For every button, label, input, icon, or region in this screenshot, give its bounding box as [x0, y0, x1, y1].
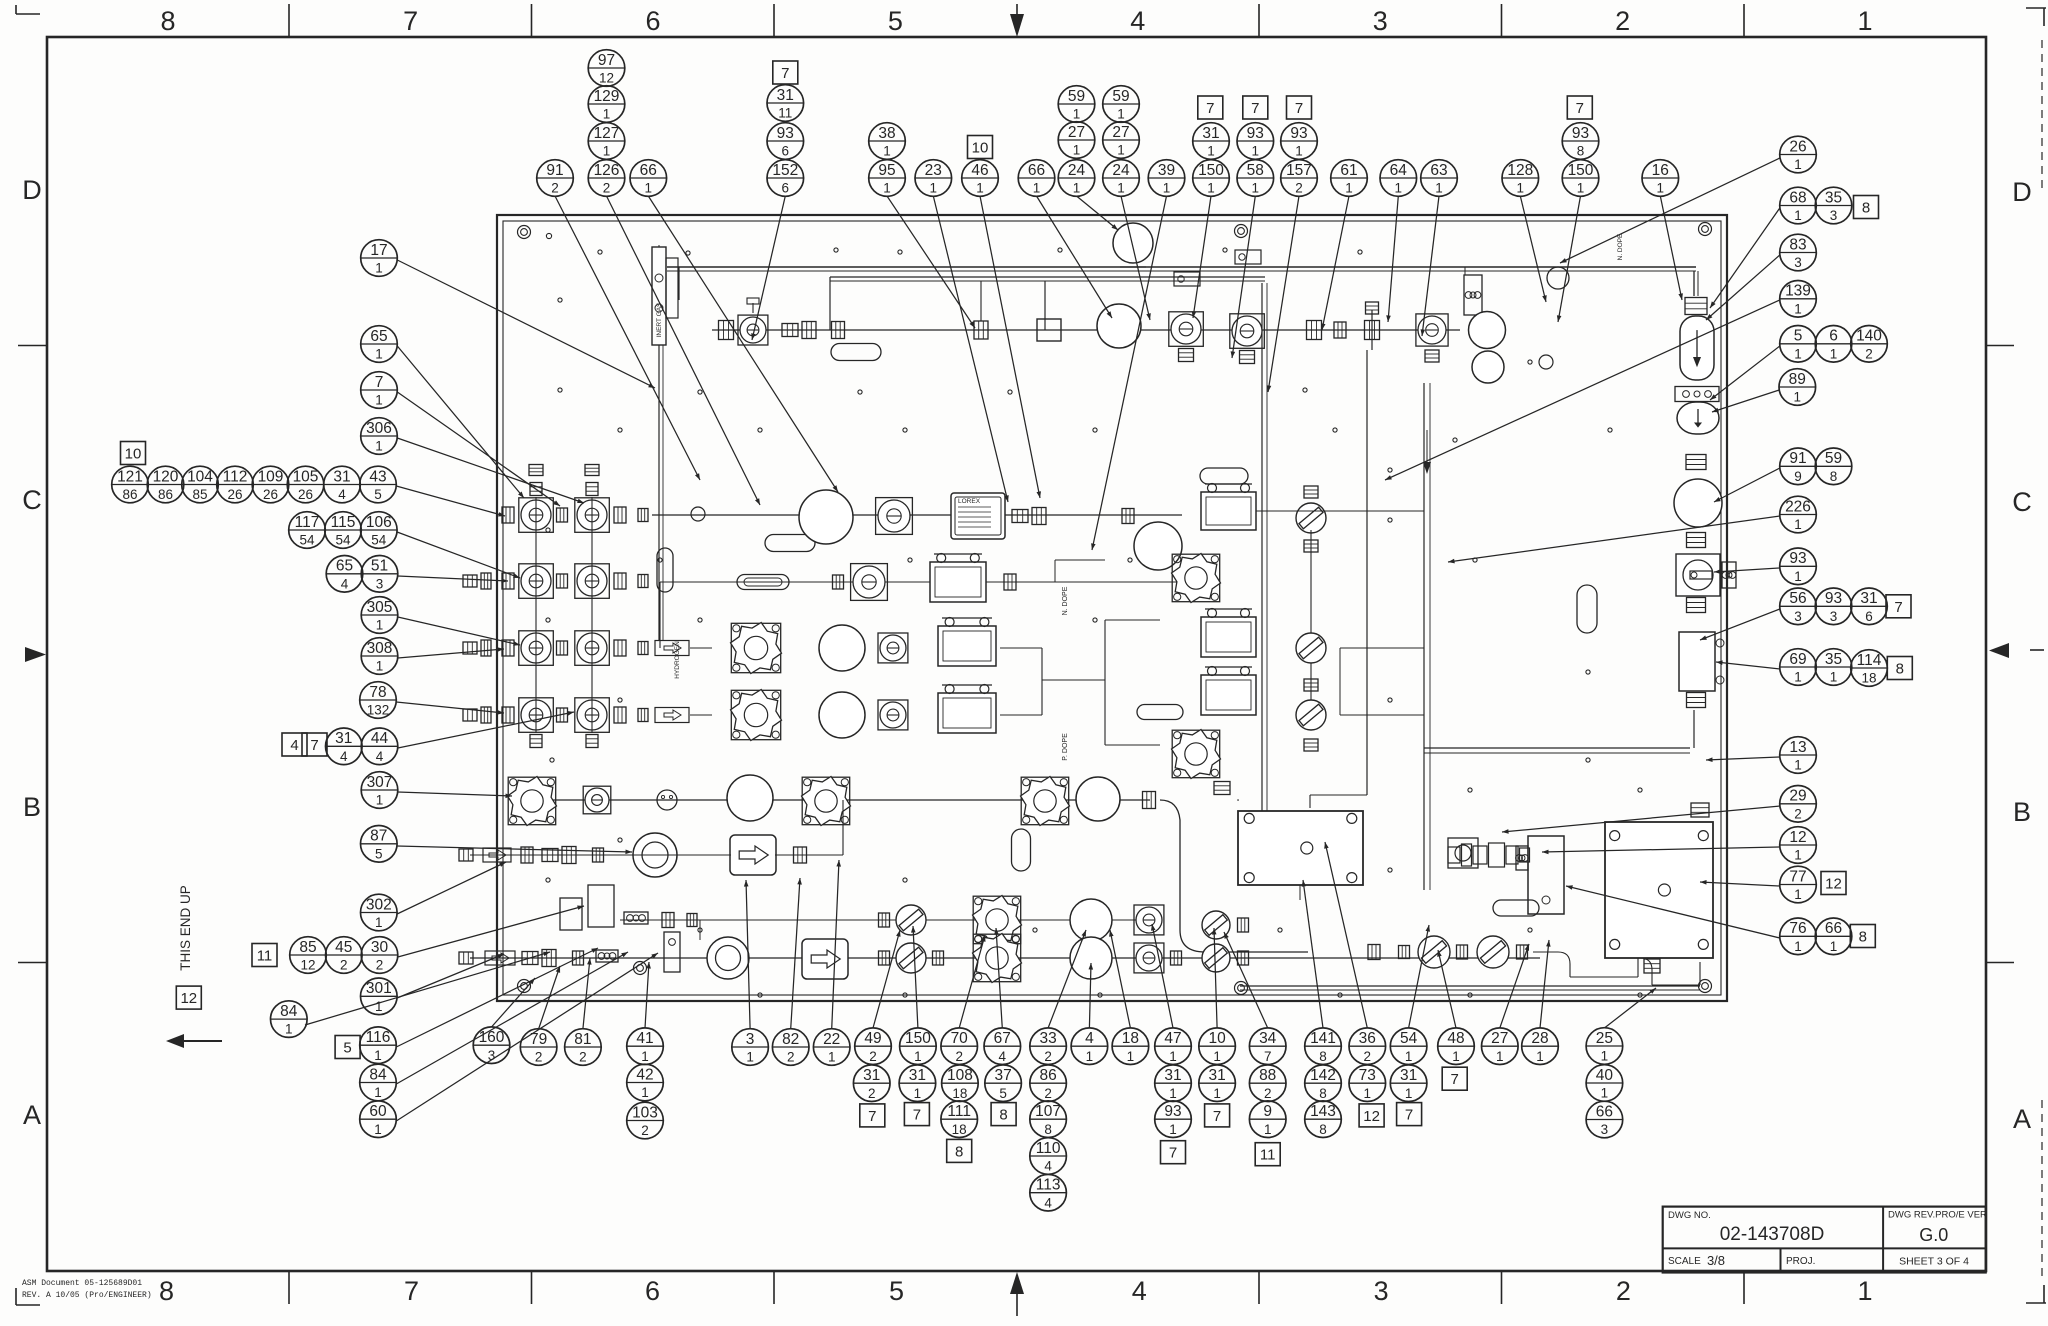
balloon callout 4/1 [1071, 1028, 1108, 1065]
balloon callout 157/2 [1281, 160, 1318, 197]
svg-text:18: 18 [1861, 671, 1876, 686]
line label P DOPE [1062, 733, 1069, 761]
svg-text:44: 44 [371, 730, 389, 747]
svg-text:54: 54 [1400, 1030, 1418, 1047]
valve row8 b [1134, 905, 1164, 935]
leader line 57 [492, 978, 536, 1027]
svg-text:36: 36 [1359, 1030, 1376, 1047]
balloon callout 31/1 [1155, 1065, 1192, 1102]
svg-text:1: 1 [1794, 157, 1802, 172]
balloon callout 65/4 [326, 556, 363, 593]
balloon callout 48/1 [1438, 1028, 1475, 1065]
svg-text:108: 108 [947, 1067, 973, 1084]
svg-text:2: 2 [1865, 346, 1873, 361]
balloon callout 112/26 [217, 466, 254, 503]
svg-text:7: 7 [403, 6, 418, 36]
dope riser lines [1042, 620, 1160, 745]
svg-text:DWG NO.: DWG NO. [1668, 1210, 1711, 1221]
balloon callout 84/1 [271, 1001, 308, 1038]
svg-text:33: 33 [1039, 1030, 1056, 1047]
balloon callout 150/1 [1562, 160, 1599, 197]
leader line 39 [397, 392, 560, 506]
svg-text:5: 5 [374, 487, 382, 502]
fitting row6 [1143, 792, 1156, 809]
svg-text:91: 91 [1789, 450, 1806, 467]
svg-text:58: 58 [1247, 162, 1264, 179]
svg-text:1: 1 [1794, 517, 1802, 532]
balloon callout 7/1 [361, 372, 398, 409]
balloon callout 59/1 [1058, 86, 1095, 123]
sheet edge line right [2041, 40, 2043, 1280]
svg-text:40: 40 [1596, 1067, 1614, 1084]
knob K1 [1172, 554, 1221, 603]
svg-text:141: 141 [1310, 1030, 1336, 1047]
svg-text:7: 7 [913, 1107, 921, 1124]
svg-text:109: 109 [258, 468, 284, 485]
svg-text:1: 1 [1794, 208, 1802, 223]
svg-text:HYDROGEN: HYDROGEN [674, 641, 681, 679]
svg-text:2: 2 [340, 958, 348, 973]
svg-text:1: 1 [914, 1086, 922, 1101]
leader line 78 [1500, 944, 1529, 1028]
boxed find number 7 [1243, 96, 1268, 119]
balloon callout 28/1 [1522, 1028, 1559, 1065]
leader line 10 [1121, 196, 1151, 320]
ring valve row9 [707, 937, 749, 979]
balloon callout 115/54 [325, 512, 362, 549]
fitting RC5 [1687, 693, 1706, 708]
balloon callout 70/2 [941, 1028, 978, 1065]
valve row8 a [879, 905, 927, 935]
svg-text:1: 1 [1405, 1086, 1413, 1101]
svg-text:3: 3 [1794, 609, 1802, 624]
svg-text:23: 23 [925, 162, 942, 179]
svg-text:02-143708D: 02-143708D [1720, 1224, 1825, 1245]
svg-text:C: C [2012, 487, 2032, 517]
svg-text:82: 82 [782, 1031, 799, 1048]
leader line 11 [1091, 196, 1166, 550]
balloon callout 65/1 [361, 326, 398, 363]
balloon callout 64/1 [1380, 160, 1417, 197]
balloon callout 143/8 [1305, 1101, 1342, 1138]
balloon callout 27/1 [1058, 122, 1095, 159]
balloon callout 42/1 [627, 1064, 664, 1101]
svg-text:93: 93 [1825, 590, 1842, 607]
svg-text:1: 1 [1794, 569, 1802, 584]
svg-text:1: 1 [1794, 887, 1802, 902]
panel slot cutouts [657, 344, 1597, 917]
svg-text:1: 1 [1830, 670, 1838, 685]
leader line 21 [1560, 158, 1780, 263]
tube row2 [652, 514, 1182, 516]
svg-text:N. DOPE: N. DOPE [1062, 586, 1069, 615]
svg-text:3/8: 3/8 [1707, 1253, 1725, 1268]
balloon callout 142/8 [1305, 1065, 1342, 1102]
manifold inlet stubs row2-4 [463, 573, 491, 723]
valve row2 right [1296, 486, 1326, 552]
svg-text:54: 54 [335, 533, 351, 548]
svg-text:31: 31 [335, 730, 352, 747]
balloon callout 95/1 [869, 160, 906, 197]
svg-text:1: 1 [1657, 181, 1665, 196]
balloon callout 114/18 [1851, 650, 1888, 687]
svg-text:1: 1 [1252, 181, 1260, 196]
leader line 77 [1437, 950, 1456, 1028]
svg-text:7: 7 [375, 374, 384, 391]
svg-text:24: 24 [1112, 162, 1130, 179]
svg-text:39: 39 [1158, 162, 1175, 179]
svg-text:2: 2 [1044, 1086, 1052, 1101]
svg-text:1: 1 [883, 144, 891, 159]
svg-text:42: 42 [636, 1066, 653, 1083]
leader line 42 [397, 532, 520, 578]
svg-text:9: 9 [1794, 469, 1802, 484]
leader line 50 [397, 862, 506, 914]
centre mark arrow right [1989, 643, 2044, 658]
svg-text:11: 11 [1260, 1147, 1276, 1164]
leader line 1 [555, 196, 700, 480]
leader line 75 [1324, 842, 1367, 1028]
leader line 72 [1212, 928, 1217, 1028]
leader line 16 [1386, 196, 1398, 322]
svg-text:6: 6 [1865, 609, 1873, 624]
svg-text:1: 1 [1213, 1086, 1221, 1101]
svg-text:105: 105 [293, 468, 319, 485]
svg-text:93: 93 [777, 125, 794, 142]
svg-text:1: 1 [1577, 181, 1585, 196]
svg-text:G.0: G.0 [1919, 1225, 1948, 1245]
check valve capsule RC [1680, 316, 1714, 380]
svg-text:87: 87 [370, 828, 387, 845]
svg-text:34: 34 [1259, 1030, 1277, 1047]
svg-text:26: 26 [298, 487, 313, 502]
inlet row9 [459, 950, 618, 967]
boxed find number 7 [1161, 1141, 1186, 1164]
svg-text:8: 8 [1830, 469, 1838, 484]
ball B2 row2 [1134, 522, 1182, 570]
svg-text:127: 127 [594, 125, 620, 142]
leader line 62 [791, 878, 802, 1029]
svg-text:7: 7 [1169, 1145, 1177, 1162]
balloon callout 35/1 [1815, 649, 1852, 686]
svg-text:64: 64 [1390, 162, 1408, 179]
fittings row1 a [782, 322, 845, 339]
block row3 [930, 554, 986, 603]
svg-text:1: 1 [1794, 301, 1802, 316]
line label N DOPE [1062, 586, 1069, 615]
leader line 30 [1700, 609, 1780, 640]
svg-text:110: 110 [1036, 1140, 1061, 1157]
boxed find number 7 [1886, 595, 1911, 618]
svg-text:1: 1 [976, 181, 984, 196]
svg-text:10: 10 [1208, 1030, 1226, 1047]
svg-text:302: 302 [366, 896, 392, 913]
knob K3 row6 [508, 777, 557, 826]
svg-text:12: 12 [1825, 876, 1842, 893]
balloon callout 150/1 [900, 1028, 937, 1065]
tube row6 [510, 799, 1150, 801]
title block [1663, 1207, 1987, 1273]
svg-text:97: 97 [598, 52, 615, 69]
balloon callout 31/1 [899, 1065, 936, 1102]
leader line 67 [994, 928, 1002, 1028]
svg-text:1: 1 [1252, 144, 1260, 159]
svg-text:7: 7 [781, 65, 789, 82]
leader line 35 [1700, 880, 1780, 886]
boxed find number 12 [176, 986, 201, 1009]
arrow box row9 [802, 939, 848, 979]
svg-text:132: 132 [367, 703, 390, 718]
dope tube vertical [1310, 350, 1367, 808]
balloon callout 87/5 [361, 826, 398, 863]
leader line 46 [396, 702, 504, 715]
bracket row9 [664, 932, 680, 972]
valve V4 row1 [1416, 314, 1448, 362]
svg-text:83: 83 [1789, 236, 1806, 253]
boxed find number 7 [1397, 1103, 1422, 1126]
svg-text:76: 76 [1789, 920, 1806, 937]
leader line 60 [645, 962, 651, 1028]
balloon callout 51/3 [361, 556, 398, 593]
balloon callout 67/4 [984, 1028, 1021, 1065]
svg-text:35: 35 [1825, 189, 1842, 206]
valve V2 row1 with bracket [1169, 272, 1204, 362]
balloon callout 129/1 [588, 86, 625, 123]
svg-text:128: 128 [1507, 162, 1533, 179]
svg-text:112: 112 [223, 468, 248, 485]
leader line 70 [1109, 930, 1130, 1028]
svg-text:3: 3 [488, 1048, 496, 1063]
balloon callout 84/1 [360, 1064, 397, 1101]
svg-text:29: 29 [1789, 788, 1806, 805]
valve row3 [833, 564, 888, 601]
valve V3 row1 with bracket [1230, 250, 1265, 364]
svg-text:8: 8 [1859, 929, 1867, 946]
svg-text:8: 8 [1319, 1122, 1327, 1137]
svg-text:1: 1 [1207, 181, 1215, 196]
narrow block right [1516, 836, 1564, 914]
svg-text:89: 89 [1789, 371, 1806, 388]
svg-text:B: B [2013, 797, 2031, 827]
row2 right line [1256, 511, 1424, 700]
balloon callout 66/1 [630, 160, 667, 197]
svg-text:2: 2 [376, 958, 384, 973]
svg-text:4: 4 [1132, 1276, 1147, 1306]
svg-text:150: 150 [905, 1030, 931, 1047]
svg-text:43: 43 [369, 468, 386, 485]
svg-text:1: 1 [1395, 181, 1403, 196]
boxed find number 11 [252, 944, 277, 967]
svg-text:1: 1 [1169, 1049, 1177, 1064]
balloon callout 69/1 [1780, 649, 1817, 686]
balloon callout 89/1 [1779, 369, 1816, 406]
svg-text:59: 59 [1112, 88, 1129, 105]
svg-text:26: 26 [263, 487, 278, 502]
leader line 66 [959, 935, 985, 1028]
svg-text:86: 86 [122, 487, 137, 502]
gauge ball top [1113, 223, 1153, 267]
svg-text:1: 1 [641, 1049, 649, 1064]
leader line 37 [397, 260, 655, 388]
purifier block LOREX [951, 493, 1005, 539]
balloon callout 63/1 [1421, 160, 1458, 197]
svg-text:306: 306 [366, 420, 392, 437]
balloon callout 93/1 [1780, 548, 1817, 585]
vertical feed line left [659, 345, 663, 640]
big elbow tube [1160, 800, 1308, 952]
balloon callout 150/1 [1193, 160, 1230, 197]
balloon callout 5/1 [1780, 326, 1817, 363]
leader line 31 [1716, 660, 1780, 669]
leader line 43 [398, 576, 508, 583]
balloon callout 31/2 [853, 1065, 890, 1102]
svg-text:1: 1 [1536, 1049, 1544, 1064]
svg-text:1: 1 [1830, 346, 1838, 361]
svg-text:41: 41 [636, 1030, 653, 1047]
leader line 40 [397, 438, 584, 503]
svg-text:7: 7 [1251, 100, 1259, 117]
svg-text:93: 93 [1572, 125, 1589, 142]
svg-text:65: 65 [336, 558, 353, 575]
svg-text:1: 1 [1163, 181, 1171, 196]
leader line 24 [1385, 300, 1780, 480]
svg-text:31: 31 [1164, 1067, 1181, 1084]
svg-text:ASM Document 05-125689D01: ASM Document 05-125689D01 [22, 1279, 142, 1288]
svg-text:7: 7 [1295, 100, 1303, 117]
balloon callout 79/2 [520, 1029, 557, 1066]
panel mounting screws [518, 223, 1712, 995]
svg-text:7: 7 [868, 1108, 876, 1125]
svg-text:7: 7 [310, 737, 318, 754]
leader line 23 [1706, 255, 1780, 320]
svg-text:1: 1 [641, 1085, 649, 1100]
balloon callout 27/1 [1482, 1028, 1519, 1065]
valve row6 a [583, 786, 611, 814]
balloon callout 30/2 [361, 937, 398, 974]
balloon callout 97/12 [588, 50, 625, 87]
svg-text:152: 152 [772, 162, 798, 179]
boxed find number 7 [860, 1104, 885, 1127]
leader line 38 [397, 346, 524, 498]
top tube rail [667, 267, 1696, 271]
svg-text:85: 85 [299, 939, 316, 956]
valve row9 a [879, 943, 944, 973]
balloon callout 31/1 [1199, 1065, 1236, 1102]
svg-text:67: 67 [994, 1030, 1011, 1047]
svg-text:4: 4 [376, 749, 384, 764]
svg-text:3: 3 [1373, 6, 1388, 36]
leader line 13 [1231, 196, 1256, 358]
valve V1 row1 [719, 298, 768, 345]
fitting RC1 [1685, 298, 1707, 315]
svg-text:139: 139 [1785, 283, 1811, 300]
clamp row8 [624, 912, 648, 924]
leader line 6 [933, 196, 1008, 502]
boxed find number 10 [121, 442, 146, 465]
line label hydrogen [674, 641, 681, 679]
leader line 47 [398, 711, 574, 748]
svg-text:2: 2 [869, 1049, 877, 1064]
clamp plate RC [1675, 387, 1719, 402]
svg-text:1: 1 [1405, 1049, 1413, 1064]
svg-text:5: 5 [999, 1086, 1007, 1101]
svg-text:1: 1 [1794, 346, 1802, 361]
svg-text:DWG REV.PRO/E VER: DWG REV.PRO/E VER [1888, 1210, 1987, 1221]
svg-text:1: 1 [1117, 181, 1125, 196]
svg-text:1: 1 [914, 1049, 922, 1064]
svg-text:THIS END UP: THIS END UP [178, 885, 193, 971]
svg-text:1: 1 [375, 999, 383, 1014]
balloon callout 12/1 [1780, 827, 1817, 864]
boxed find number 7 [904, 1103, 929, 1126]
gas panel plate [497, 215, 1727, 1001]
fitting RC2 [1686, 455, 1706, 470]
balloon callout 29/2 [1780, 786, 1817, 823]
svg-text:7: 7 [1206, 100, 1214, 117]
svg-text:84: 84 [369, 1066, 387, 1083]
svg-text:31: 31 [909, 1067, 926, 1084]
boxed find number 7 [1205, 1104, 1230, 1127]
leader line 7 [980, 196, 1041, 498]
svg-text:54: 54 [371, 533, 387, 548]
svg-text:86: 86 [158, 487, 173, 502]
svg-text:10: 10 [972, 140, 989, 157]
svg-text:1: 1 [1435, 181, 1443, 196]
leader line 41 [396, 486, 505, 517]
balloon callout 306/1 [361, 418, 398, 455]
svg-text:10: 10 [125, 446, 142, 463]
svg-text:6: 6 [1829, 328, 1838, 345]
leader line 12 [1192, 196, 1211, 318]
balloon callout 13/1 [1780, 737, 1817, 774]
tube clamp right rail [1464, 267, 1482, 315]
ball valve RC [1676, 554, 1736, 596]
leader line 20 [1660, 196, 1683, 300]
balloon callout 305/1 [361, 597, 398, 634]
balloon callout 93/6 [767, 123, 804, 160]
svg-text:103: 103 [632, 1104, 658, 1121]
svg-text:115: 115 [331, 514, 356, 531]
svg-text:114: 114 [1857, 652, 1882, 669]
balloon callout 104/85 [182, 466, 219, 503]
right riser lower [1693, 710, 1695, 748]
svg-text:7: 7 [1213, 1108, 1221, 1125]
balloon callout 302/1 [361, 894, 398, 931]
svg-text:2: 2 [535, 1050, 543, 1065]
ring valve row7 [633, 833, 677, 877]
svg-text:2: 2 [551, 181, 559, 196]
svg-text:5: 5 [375, 846, 383, 861]
leader line 3 [648, 196, 838, 492]
svg-text:1: 1 [375, 347, 383, 362]
svg-text:1: 1 [1857, 1276, 1872, 1306]
svg-text:1: 1 [376, 793, 384, 808]
transducer block [1238, 800, 1363, 885]
svg-text:7: 7 [1894, 599, 1902, 616]
boxed find number 8 [1854, 196, 1879, 219]
svg-text:3: 3 [1374, 1276, 1389, 1306]
big box ports [1644, 803, 1709, 973]
ball B1 row2 [799, 490, 853, 544]
knob K6 row8 [973, 896, 1022, 945]
knob K2 [1172, 730, 1221, 779]
leader line 36 [1566, 885, 1780, 938]
leader line 74 [1302, 880, 1323, 1028]
svg-text:D: D [22, 175, 42, 205]
balloon callout 10/1 [1199, 1028, 1236, 1065]
svg-text:7: 7 [1576, 100, 1584, 117]
balloon callout 109/26 [252, 466, 289, 503]
